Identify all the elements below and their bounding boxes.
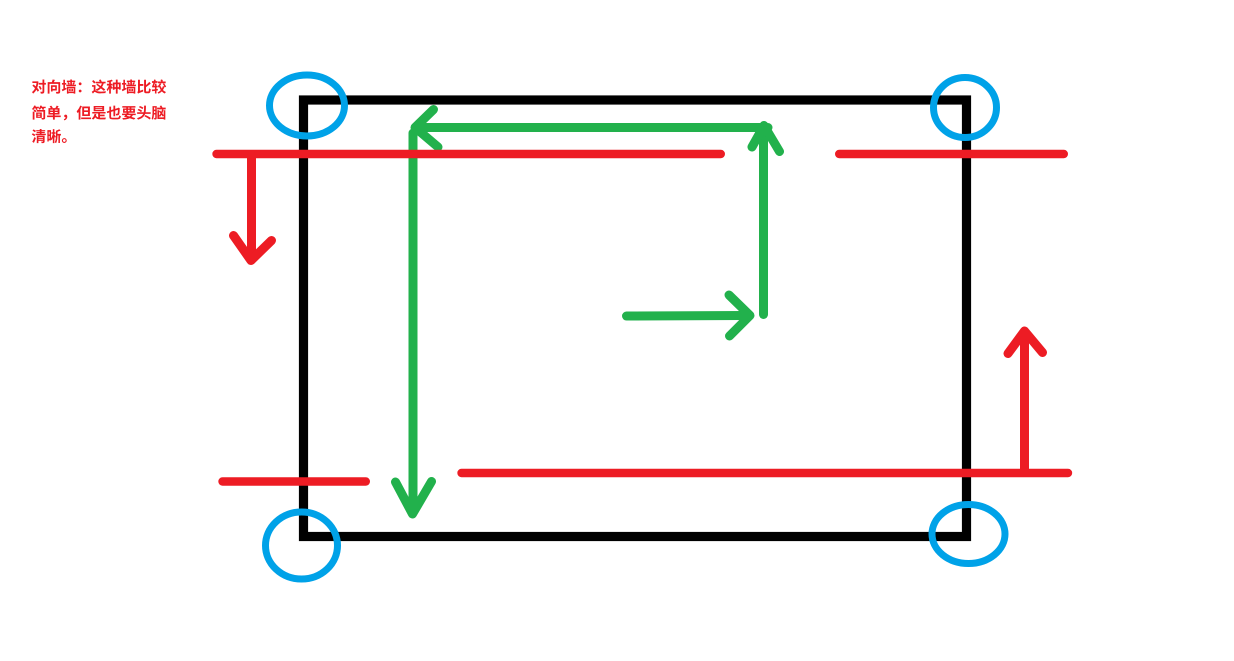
- red wall mark: bottom long line: [462, 469, 1069, 477]
- red annotation text line 1: 对向墙：这种墙比较: [32, 79, 166, 93]
- green route: middle horizontal arrow pointing right: [627, 295, 751, 336]
- room rectangle (black wall outline): [304, 100, 967, 537]
- red annotation text line 2: 简单，但是也要头脑: [32, 105, 166, 120]
- red arrow pointing down (left side): [234, 156, 272, 261]
- green route: top horizontal arrow pointing left: [415, 110, 768, 148]
- red wall mark: top-right horizontal line: [839, 150, 1064, 158]
- blue circle bottom-right corner: [932, 505, 1005, 564]
- red wall mark: top-left horizontal line: [217, 150, 721, 158]
- green route: left vertical line with down arrow: [396, 133, 432, 514]
- red annotation text line 3: 清晰。: [32, 129, 67, 143]
- red wall mark: bottom-left short line: [223, 477, 366, 485]
- blue circle bottom-left corner: [266, 512, 338, 579]
- green route: right vertical line with up arrow: [752, 126, 780, 315]
- red arrow pointing up (right side): [1008, 331, 1043, 472]
- blue circle top-right corner: [934, 78, 997, 138]
- blue circle top-left corner: [270, 75, 345, 136]
